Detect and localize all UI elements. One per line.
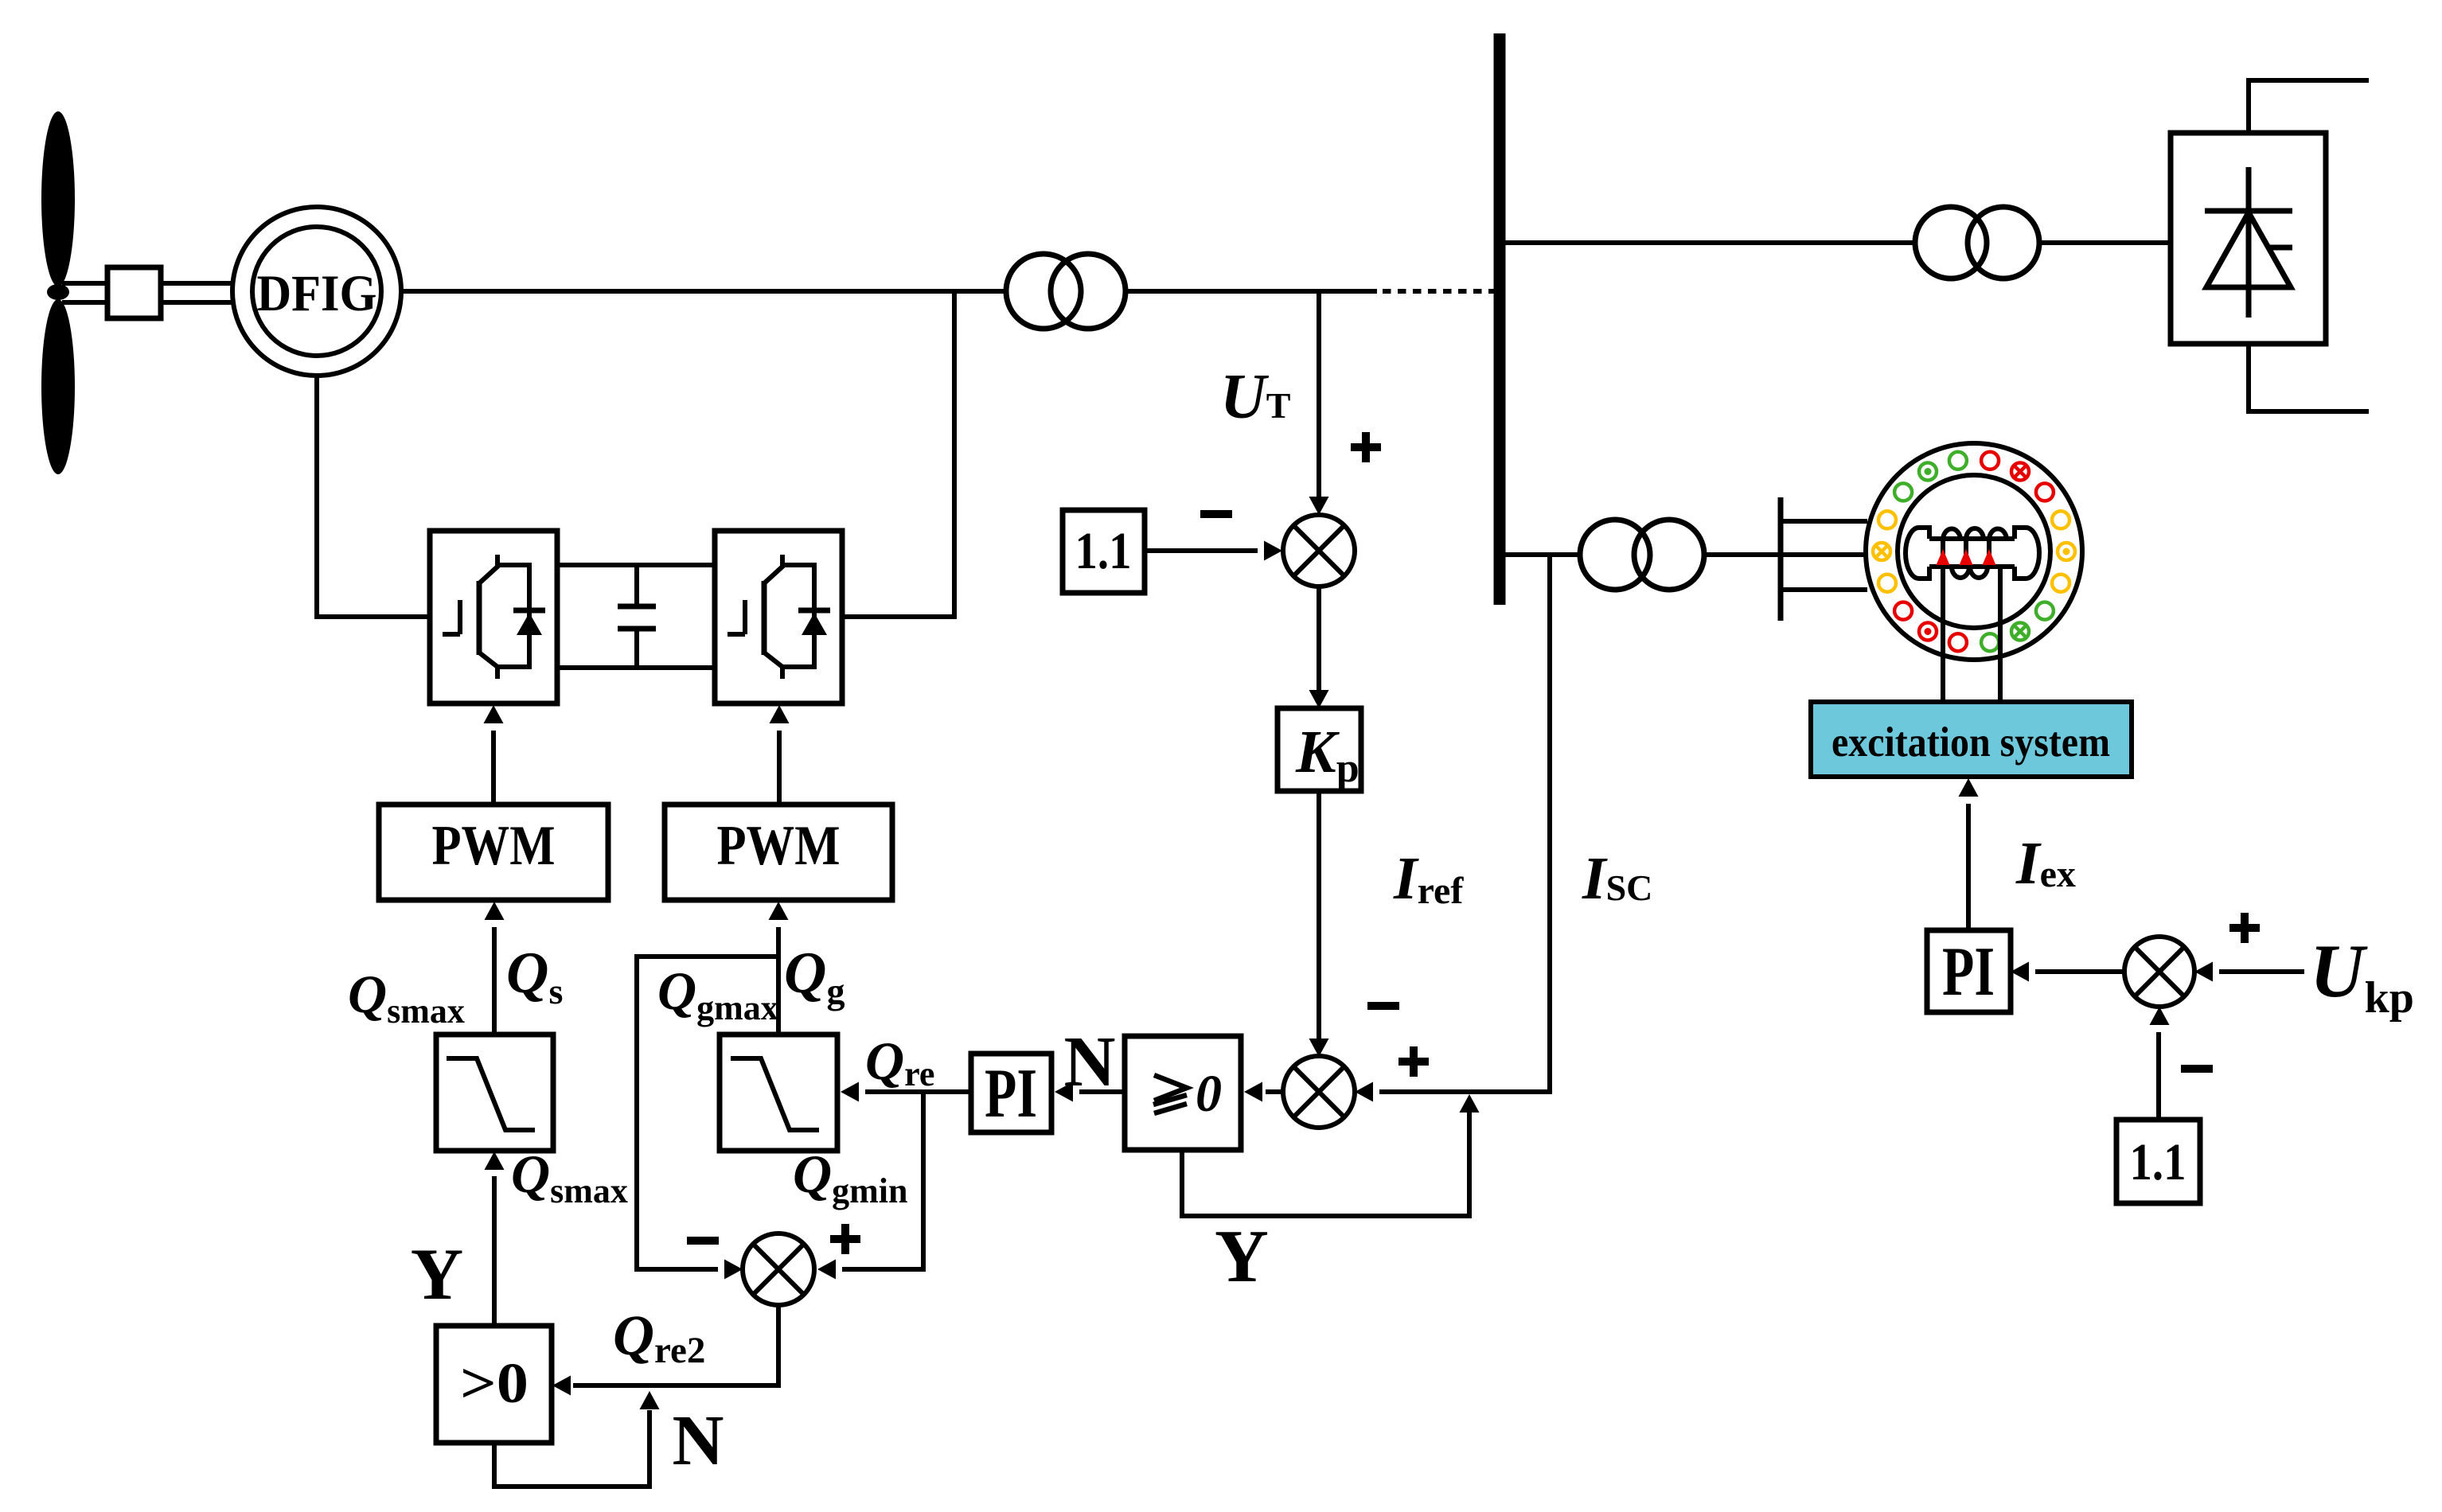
wire T1 to bus	[1125, 289, 1377, 294]
IGBT Q2	[764, 555, 782, 583]
PWM block left	[379, 805, 608, 900]
excitation system block	[1811, 702, 2132, 777]
wire N feedback	[494, 1410, 650, 1487]
wire S1 to Kp	[1317, 587, 1321, 692]
block Kp	[1278, 708, 1361, 791]
block const 1.1 a	[1063, 510, 1145, 593]
svg-text:Y: Y	[411, 1233, 463, 1315]
wire S3 out Qre2	[573, 1305, 778, 1385]
wire ISC down	[1379, 557, 1550, 1092]
bus B1	[1494, 33, 1506, 605]
svg-text:1.1: 1.1	[2130, 1133, 2186, 1191]
wire Kp to S2	[1317, 791, 1321, 1040]
wire dashed to bus	[1383, 289, 1494, 294]
wire DC link top	[557, 563, 715, 567]
wire T2 to rectifier	[2039, 240, 2171, 245]
capacitor C1	[618, 565, 656, 668]
block GE0	[1125, 1036, 1241, 1150]
converter RSC	[430, 531, 557, 703]
svg-text:>0: >0	[460, 1351, 529, 1415]
gearbox	[107, 267, 161, 318]
limiter sat2	[720, 1035, 837, 1151]
PI block 1	[971, 1054, 1051, 1132]
IGBT Q1	[479, 555, 497, 583]
PWM block right	[665, 805, 892, 900]
label plus S1	[1351, 432, 1381, 462]
svg-text:Y: Y	[1215, 1215, 1269, 1298]
wire UT tap	[1317, 291, 1321, 498]
label plus S4	[2229, 913, 2260, 943]
wire DC link bottom	[557, 665, 715, 670]
wire DFIG stator down	[317, 376, 430, 617]
transformer T1	[1006, 254, 1125, 329]
rectifier block	[2171, 133, 2326, 344]
limiter sat1	[436, 1035, 553, 1151]
svg-text:N: N	[1064, 1023, 1116, 1101]
transformer T2	[1915, 207, 2039, 279]
summing junction S4	[2124, 937, 2194, 1007]
block GT0	[436, 1326, 552, 1443]
wire rotor to excitation	[1943, 567, 2000, 702]
wire >0 to limiter Y	[492, 1176, 497, 1326]
rotor body	[1906, 528, 2039, 579]
wire shaft right	[161, 283, 235, 302]
generator DFIG G1	[232, 207, 401, 376]
block const 1.1 b	[2116, 1120, 2200, 1203]
wire Y feedback right	[1182, 1111, 1469, 1216]
rotor coil	[1943, 528, 2007, 578]
wire shaft left	[62, 283, 107, 302]
label minus S2	[1367, 1002, 1399, 1010]
wire DFIG to transformer T1	[401, 289, 1006, 294]
svg-text:0: 0	[1196, 1065, 1222, 1123]
wire GE0 to PI	[1079, 1089, 1125, 1094]
svg-text:N: N	[673, 1401, 724, 1480]
PI block 2	[1927, 930, 2011, 1012]
wire phase a	[1781, 519, 1867, 524]
terminal bar	[1778, 497, 1784, 621]
svg-text:PWM: PWM	[432, 815, 556, 877]
label plus S2	[1398, 1046, 1429, 1077]
svg-text:excitation system: excitation system	[1831, 719, 2110, 766]
svg-text:PI: PI	[1942, 933, 1995, 1011]
wire Qre PI to limiter	[865, 1089, 971, 1094]
rotor current arrows	[1937, 549, 1996, 565]
summing junction S3	[743, 1233, 814, 1305]
wire bus to T2	[1505, 240, 1915, 245]
summing junction S2	[1283, 1056, 1355, 1128]
summing junction S1	[1283, 515, 1355, 586]
wire rectifier top	[2249, 80, 2369, 133]
wire Qs limiter to PWM1	[492, 927, 497, 1035]
label minus S1	[1200, 510, 1232, 518]
transformer T3	[1580, 520, 1704, 590]
wire Ukp in	[2219, 969, 2304, 974]
wire S2 to GE0	[1266, 1089, 1283, 1094]
thyristor V1	[2205, 167, 2292, 318]
wire 1.1b to S4	[2156, 1032, 2161, 1120]
converter GSC	[715, 531, 842, 703]
wire GSC to grid junction	[841, 291, 954, 617]
svg-text:DFIG: DFIG	[257, 265, 377, 322]
svg-text:PWM: PWM	[717, 815, 841, 877]
wire S4 to PI2	[2035, 969, 2124, 974]
svg-text:1.1: 1.1	[1075, 522, 1132, 580]
label plus S3	[830, 1224, 860, 1254]
wind turbine blades	[41, 111, 75, 474]
wire Qg limiter to PWM2	[776, 927, 781, 1035]
wire bus to T3	[1505, 552, 1580, 557]
wire 1.1 to S1	[1145, 548, 1258, 553]
wire phase c	[1781, 587, 1867, 592]
wire rectifier bottom	[2249, 344, 2369, 411]
wire PWM1 to RSC	[491, 731, 496, 805]
label minus S4	[2181, 1065, 2213, 1073]
synchronous condenser SC	[1866, 443, 2082, 660]
wire Qre tap	[842, 1092, 923, 1269]
svg-text:PI: PI	[985, 1055, 1037, 1132]
wire T3 to SC machine	[1704, 552, 1864, 557]
wire Iex to excitation	[1966, 804, 1971, 930]
label minus S3	[687, 1237, 719, 1245]
wire PWM2 to GSC	[777, 731, 782, 805]
wire Qgmax feedback	[637, 957, 778, 1269]
